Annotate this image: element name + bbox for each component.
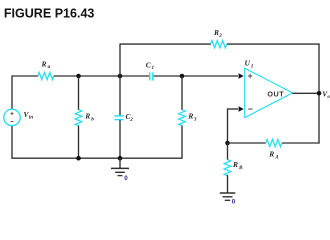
wire: RA rail left segment bbox=[228, 142, 266, 144]
svg-text:B: B bbox=[238, 165, 243, 171]
svg-text:A: A bbox=[274, 154, 279, 160]
voltage source Vin bbox=[4, 109, 33, 125]
svg-text:1: 1 bbox=[251, 63, 254, 69]
node label Vo bbox=[322, 90, 330, 101]
wire: left vertical lower (Vin to bottom rail) bbox=[11, 126, 13, 159]
wire: bottom rail bbox=[11, 157, 182, 159]
arrowhead into + input bbox=[239, 73, 244, 78]
junction: output node Vo bbox=[317, 91, 322, 96]
wire: top rail, Vin corner to Ra bbox=[11, 75, 38, 77]
svg-text:OUT: OUT bbox=[267, 90, 284, 99]
svg-text:FIGURE P16.43: FIGURE P16.43 bbox=[4, 6, 95, 21]
svg-text:b: b bbox=[91, 116, 94, 122]
svg-text:2: 2 bbox=[129, 117, 133, 123]
resistor R2 bbox=[211, 28, 227, 48]
ground (RB) bbox=[220, 193, 236, 206]
wire: left vertical upper (Vin to top rail) bbox=[11, 76, 13, 109]
svg-text:0: 0 bbox=[232, 199, 236, 206]
resistor Rb bbox=[75, 76, 94, 158]
svg-text:R: R bbox=[187, 111, 193, 120]
svg-text:R: R bbox=[41, 60, 47, 69]
wire: top rail, Ra to C1 bbox=[54, 75, 150, 77]
wire: feedback top rail, R2 to right vertical bbox=[227, 43, 320, 45]
svg-text:1: 1 bbox=[152, 65, 155, 71]
svg-text:in: in bbox=[29, 114, 33, 120]
svg-text:R: R bbox=[268, 150, 274, 159]
junction: RA/RB node bbox=[225, 141, 230, 146]
wire: feedback top rail, corner to R2 bbox=[120, 43, 211, 45]
resistor Ra bbox=[38, 60, 54, 80]
resistor RA bbox=[266, 139, 282, 160]
svg-text:R: R bbox=[84, 112, 90, 121]
svg-text:a: a bbox=[48, 64, 51, 70]
svg-text:U: U bbox=[245, 58, 251, 67]
wire: top rail, C1 to op-amp + input bbox=[154, 75, 238, 77]
resistor RB bbox=[224, 143, 243, 193]
junction: Rb bottom node bbox=[76, 156, 81, 161]
junction: Rb top node bbox=[76, 74, 81, 79]
ground (bottom rail) bbox=[111, 158, 129, 182]
wire: RA rail right segment bbox=[282, 142, 320, 144]
svg-text:R: R bbox=[213, 28, 219, 37]
wire: inverting input vertical down to RA node bbox=[227, 108, 229, 143]
arrowhead into - input bbox=[239, 106, 244, 111]
junction: C2/ground bottom node bbox=[118, 156, 123, 161]
wire: C2 bottom to bottom rail bbox=[119, 120, 121, 158]
wire: op-amp output to Vo node bbox=[293, 92, 320, 94]
op-amp U1 bbox=[245, 58, 293, 117]
capacitor C2 bbox=[115, 112, 134, 123]
capacitor C1 bbox=[146, 60, 155, 80]
wire: right vertical (output feedback) bbox=[318, 44, 320, 144]
wire: feedback branch vertical (top rail to upper rail corner) bbox=[119, 44, 121, 116]
svg-text:3: 3 bbox=[193, 116, 197, 122]
svg-text:0: 0 bbox=[124, 175, 128, 182]
resistor R3 bbox=[179, 76, 197, 158]
junction: R3 top node bbox=[180, 74, 185, 79]
svg-text:2: 2 bbox=[218, 33, 222, 39]
junction: C2/feedback top node bbox=[118, 74, 123, 79]
wire: inverting input horizontal bbox=[228, 108, 239, 110]
svg-text:R: R bbox=[232, 160, 238, 169]
